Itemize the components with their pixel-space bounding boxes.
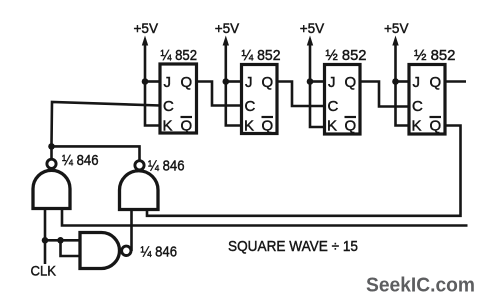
svg-text:+5V: +5V [134,20,159,36]
flip-flop U1 box [160,64,197,133]
svg-text:CLK: CLK [31,263,57,279]
svg-text:+5V: +5V [300,20,325,36]
+5V supply arrow 4 [392,36,398,82]
wire J input U1 [145,80,160,83]
wire Q2 to C3 [277,82,325,107]
wire J-K tie bracket U4 [396,82,410,126]
svg-text:¼ 852: ¼ 852 [242,47,281,64]
wire J input U2 [226,80,242,83]
svg-text:½ 852: ½ 852 [326,47,367,64]
flip-flop U2 box [242,65,278,134]
overbar Q3 [345,116,357,118]
junction dot A CLK [42,237,49,244]
svg-text:J: J [413,74,421,91]
svg-text:J: J [328,74,336,91]
node dot clock bus [48,143,55,150]
svg-text:C: C [245,98,256,115]
svg-text:Q: Q [345,74,357,91]
svg-text:C: C [328,98,339,115]
+5V supply arrow 2 [223,36,229,82]
svg-text:Q: Q [430,74,442,91]
NAND gate G3 bubble [122,246,131,255]
+5V supply arrow 3 [307,36,313,82]
pin labels U4 [412,74,442,135]
NAND gate G2 bubble [135,161,144,170]
svg-text:Q: Q [262,118,274,135]
wire J-K tie bracket U2 [226,82,242,126]
svg-text:Q: Q [181,118,193,135]
wire J input U3 [310,80,325,83]
wire J-K tie bracket U1 [145,82,160,126]
svg-text:+5V: +5V [215,20,240,36]
wire G1 left input [44,209,47,241]
wire CLK to G3 upper input [45,239,80,242]
svg-text:K: K [412,118,422,135]
wire G2 left input to G3 output [130,210,133,252]
wire node to gate G2 output [52,146,140,160]
wire G2 right input to Q4-bar feedback [147,126,461,216]
wire Q1 to C2 [197,82,242,106]
svg-text:¼ 846: ¼ 846 [141,244,178,261]
pin labels U1 [163,74,193,135]
NAND gate G2 body [120,171,159,210]
svg-text:C: C [412,98,423,115]
junction dot J1 [142,78,149,85]
flip-flop U3 box [325,65,361,135]
pin labels U3 [327,74,356,135]
overbar Q4 [430,116,442,118]
junction dot J2 [223,78,230,85]
wire Q4 output stub [445,80,466,83]
NAND gate G3 body [80,233,120,269]
wire CLK stem [44,240,47,264]
pin labels U2 [244,74,273,135]
wire J input U4 [396,80,410,83]
svg-text:Q: Q [430,118,442,135]
svg-text:¼ 846: ¼ 846 [148,158,185,175]
svg-text:K: K [327,118,337,135]
junction dot B CLK [57,237,64,244]
svg-text:¼ 852: ¼ 852 [161,47,198,64]
wire G3 lower input jog [61,240,81,256]
wire Q3 to C4 [360,82,409,107]
svg-text:J: J [164,74,172,91]
junction dot J3 [307,78,314,85]
svg-text:K: K [163,118,173,135]
overbar Q1 [181,116,193,118]
svg-text:K: K [244,118,254,135]
overbar Q2 [262,116,274,118]
flip-flop U4 box [409,65,445,135]
wire clock bus to C1 [52,102,161,144]
wire J-K tie bracket U3 [310,82,325,128]
svg-text:J: J [245,74,253,91]
junction dot J4 [392,78,399,85]
svg-text:SQUARE WAVE ÷ 15: SQUARE WAVE ÷ 15 [228,238,358,255]
svg-text:SeekIC.com: SeekIC.com [366,274,475,297]
svg-text:Q: Q [345,118,357,135]
svg-text:¼ 846: ¼ 846 [62,152,99,169]
NAND gate G1 bubble [47,159,56,168]
NAND gate G1 body [33,170,70,208]
svg-text:C: C [163,98,174,115]
svg-text:+5V: +5V [384,20,409,36]
svg-text:Q: Q [181,74,193,91]
svg-text:½ 852: ½ 852 [414,47,456,64]
wire gate G1 output to node [50,146,53,159]
wire G1 right input feedback line [62,209,468,226]
svg-text:Q: Q [262,74,274,91]
+5V supply arrow 1 [142,36,148,82]
